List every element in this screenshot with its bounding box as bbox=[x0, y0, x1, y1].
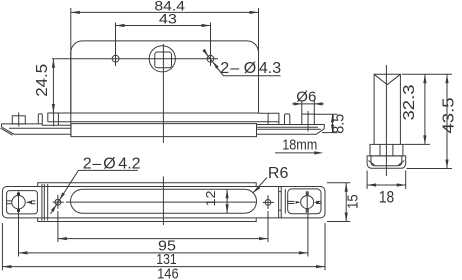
svg-text:24.5: 24.5 bbox=[34, 64, 51, 97]
bottom view left cap circle tick bottom bbox=[18, 209, 20, 213]
side view right strip chamfer bbox=[316, 129, 324, 134]
hole right (Ø4.3) bbox=[207, 55, 214, 62]
bottom view left cap circle bbox=[12, 196, 25, 209]
striker base outer bbox=[367, 156, 406, 168]
side view bracket strip lower line bbox=[9, 127, 71, 129]
dimension 146 line bbox=[2, 266, 325, 268]
side view top bar (face plate edge) bbox=[48, 113, 259, 122]
dimension 131 arrow right bbox=[299, 251, 308, 254]
bottom view hole left (Ø4.2) bbox=[55, 199, 61, 205]
bottom view left cap hlines left bbox=[7, 201, 12, 204]
dimension 15 arrow top bbox=[345, 183, 348, 192]
dimension 15 arrow bottom bbox=[345, 213, 348, 222]
striker bolt V notch left bbox=[374, 74, 387, 84]
label 18mm arrowhead bbox=[314, 151, 323, 154]
center circle boss bbox=[149, 46, 175, 72]
bottom view left cap arrow right bbox=[25, 201, 32, 204]
svg-text:8.5: 8.5 bbox=[331, 114, 348, 134]
dimension 8.5 extension top bbox=[313, 113, 338, 115]
striker bolt V notch right bbox=[387, 74, 400, 84]
dimension 146 arrow right bbox=[316, 265, 325, 268]
dimension 18 arrow left bbox=[367, 183, 376, 186]
dimension 95 arrow right bbox=[259, 237, 268, 240]
dimension 95 arrow left bbox=[58, 237, 67, 240]
dimension 146 extension left bbox=[1, 223, 3, 270]
bottom view hole right crosshair h bbox=[263, 201, 274, 203]
bottom view bracket circle vline bbox=[306, 191, 308, 213]
dimension 32.3 line bbox=[424, 74, 426, 144]
dimension 24.5 arrow bottom bbox=[52, 104, 55, 113]
bottom view hole left crosshair h bbox=[53, 201, 64, 203]
side view Ø6 boss centerline bbox=[307, 111, 309, 132]
bottom view bracket tick bottom bbox=[306, 209, 308, 213]
side view bracket chamfer1 bbox=[2, 127, 15, 134]
dimension 95 extension left bbox=[57, 211, 59, 242]
leader R6 arrowhead bbox=[253, 186, 260, 193]
horizontal centerline top view bbox=[52, 58, 218, 60]
side view right strip bottom bbox=[257, 128, 321, 130]
dimension 131 extension left bbox=[18, 209, 20, 257]
dimension 84.4 line bbox=[71, 11, 259, 13]
bottom view bend line pair bbox=[42, 184, 44, 221]
side view right strip inner line bbox=[257, 126, 319, 128]
leader 2-Ø4.3 arrow lower bbox=[213, 62, 219, 69]
dimension 18 arrow right bbox=[397, 183, 406, 186]
svg-text:146: 146 bbox=[157, 265, 179, 280]
dimension 146 extension right bbox=[324, 223, 326, 270]
dimension 15 extension bottom bbox=[327, 221, 350, 223]
bottom view centerline vertical bbox=[162, 176, 164, 225]
striker nut facet right bbox=[392, 144, 394, 156]
side view right strip top line bbox=[257, 124, 325, 126]
bottom view bracket left line bbox=[284, 189, 286, 213]
bottom view hole right crosshair v bbox=[267, 195, 269, 209]
bottom view bracket hlines right bbox=[316, 201, 321, 203]
dimension 84.4 extension left bbox=[70, 8, 72, 41]
leader R6 line bbox=[253, 178, 267, 194]
leader 2-Ø4.2 arrow upper bbox=[60, 193, 65, 200]
dimension 18 extension right bbox=[405, 171, 407, 190]
svg-text:2–Ø4.2: 2–Ø4.2 bbox=[83, 155, 141, 172]
bottom view bracket arrow right bbox=[314, 201, 319, 204]
dimension 84.4 arrow right bbox=[250, 11, 259, 14]
bottom view bracket hlines left bbox=[287, 201, 295, 203]
dimension 32.3 arrow top bbox=[423, 74, 426, 83]
dimension 84.4 arrow left bbox=[71, 11, 80, 14]
bottom view left cap inner rect bbox=[7, 191, 38, 214]
dimension 32.3 arrow bottom bbox=[423, 135, 426, 144]
bottom view right bend pair ticks bbox=[279, 192, 282, 211]
striker base inner bbox=[371, 156, 402, 166]
svg-text:2–Ø4.3: 2–Ø4.3 bbox=[220, 60, 281, 77]
side view bracket strip top bbox=[2, 123, 43, 125]
bottom view left cap circle tick top bbox=[18, 193, 20, 197]
dimension 24.5 arrow top bbox=[52, 59, 55, 68]
dimension 8.5 line bbox=[332, 114, 334, 132]
svg-text:43.5: 43.5 bbox=[441, 97, 458, 133]
side view Ø6 boss bbox=[302, 114, 315, 124]
dimension 95 extension right bbox=[267, 211, 269, 242]
striker bolt body bbox=[374, 74, 400, 144]
hole left (Ø4.3) bbox=[112, 55, 119, 62]
dimension 15 extension top bbox=[327, 182, 350, 184]
bottom view bracket arrow left bbox=[296, 201, 301, 204]
dimension Ø6 arrow right bbox=[314, 102, 322, 105]
side view bracket strip bottom bbox=[14, 133, 71, 135]
side view main block bbox=[71, 124, 257, 137]
dimension 18 line bbox=[367, 184, 406, 186]
dimension 131 line bbox=[19, 252, 308, 254]
center square hole bbox=[155, 52, 172, 68]
side view left cap divider bbox=[57, 113, 59, 125]
dimension 43 line bbox=[116, 25, 211, 27]
side view right strip2 bottom bbox=[257, 133, 317, 135]
dimension 12 arrow bottom bbox=[226, 204, 229, 213]
svg-text:18: 18 bbox=[379, 188, 394, 206]
dimension 43.5 arrow top bbox=[445, 74, 448, 83]
side view boss1 bbox=[12, 116, 25, 124]
top view plate outline bbox=[71, 41, 259, 113]
svg-text:18mm: 18mm bbox=[282, 137, 317, 154]
dimension 32.3 extension bottom bbox=[404, 143, 431, 145]
dimension 43.5 arrow bottom bbox=[445, 160, 448, 169]
side view bracket left edge bbox=[1, 124, 3, 127]
dimension Ø6 extension left bbox=[301, 101, 303, 115]
side view bar bottom line bbox=[48, 121, 279, 123]
side view post2 bbox=[285, 114, 290, 125]
striker centerline bbox=[385, 65, 387, 176]
dimension 12 arrow top bbox=[226, 189, 229, 198]
dimension 8.5 arrow top bbox=[331, 114, 334, 122]
dimension 18 extension left bbox=[366, 171, 368, 190]
bottom view bracket tick top bbox=[306, 192, 308, 196]
dimension Ø6 line bbox=[292, 103, 324, 105]
striker nut bbox=[370, 144, 403, 156]
dimension 95 line bbox=[58, 238, 268, 240]
side view plate left edge extended bbox=[70, 41, 72, 137]
svg-text:R6: R6 bbox=[268, 165, 289, 182]
dimension Ø6 extension right bbox=[313, 101, 315, 115]
svg-text:15: 15 bbox=[345, 194, 362, 209]
side view bracket strip step bbox=[42, 124, 71, 125]
bottom view hole left crosshair v bbox=[57, 195, 59, 209]
striker nut facet left bbox=[379, 144, 381, 156]
label 18mm arrow line bbox=[275, 152, 320, 154]
bottom view raised box bottom bbox=[38, 218, 257, 222]
leader 2-Ø4.3 arrow upper bbox=[202, 49, 208, 56]
dimension 131 extension right bbox=[307, 214, 309, 257]
side view left cap centerline bbox=[53, 111, 55, 126]
bottom view left cap hlines right bbox=[31, 201, 36, 204]
leader 2-Ø4.2 arrow lower bbox=[51, 205, 56, 212]
side view boss1 centerline bbox=[18, 113, 20, 127]
bottom view right bracket bbox=[288, 189, 321, 214]
dimension 43.5 line bbox=[446, 74, 448, 168]
vertical centerline top view through side view bbox=[162, 44, 164, 143]
side view post1 bbox=[38, 114, 42, 124]
svg-text:12: 12 bbox=[204, 190, 218, 206]
bottom view raised box top bbox=[38, 183, 257, 187]
side view bracket chamfer2 bbox=[1, 128, 13, 135]
bottom view slot centerline bbox=[66, 201, 257, 203]
svg-text:Ø6: Ø6 bbox=[296, 88, 316, 105]
dimension 15 line bbox=[345, 183, 347, 222]
dimension 43 arrow left bbox=[116, 24, 125, 27]
leader 2-Ø4.3 bbox=[203, 50, 280, 75]
side view right ledge bbox=[259, 113, 279, 124]
bottom view right bend line pair bbox=[279, 187, 282, 218]
svg-text:43: 43 bbox=[159, 12, 177, 27]
dimension 12 line bbox=[226, 189, 228, 213]
svg-text:32.3: 32.3 bbox=[401, 84, 418, 120]
bottom view bracket circle bbox=[301, 196, 314, 209]
dimension Ø6 arrow left bbox=[294, 102, 302, 105]
side view right strip right edge bbox=[323, 125, 325, 129]
dimension 32.3 extension top bbox=[402, 73, 452, 75]
bottom view plate outline bbox=[2, 187, 325, 218]
dimension 24.5 line bbox=[52, 59, 54, 113]
bottom view left cap circle vline bbox=[18, 192, 20, 214]
dimension 84.4 extension right bbox=[258, 8, 260, 53]
bottom view hole right (Ø4.2) bbox=[265, 200, 271, 206]
bottom view slot bbox=[71, 189, 257, 213]
extension line left hole bbox=[115, 23, 117, 67]
dimension 8.5 extension bottom bbox=[322, 132, 338, 134]
dimension 43.5 extension bottom bbox=[407, 168, 453, 170]
striker base corner mark right bbox=[398, 161, 404, 166]
bottom view bend line single bbox=[47, 184, 49, 221]
extension line right hole bbox=[210, 23, 212, 67]
dimension 8.5 arrow bottom bbox=[331, 125, 334, 133]
striker base corner mark left bbox=[369, 161, 375, 166]
dimension 131 arrow left bbox=[19, 251, 28, 254]
leader 2-Ø4.2 line bbox=[51, 170, 138, 214]
dimension 146 arrow left bbox=[2, 265, 11, 268]
dimension 43 arrow right bbox=[202, 24, 211, 27]
